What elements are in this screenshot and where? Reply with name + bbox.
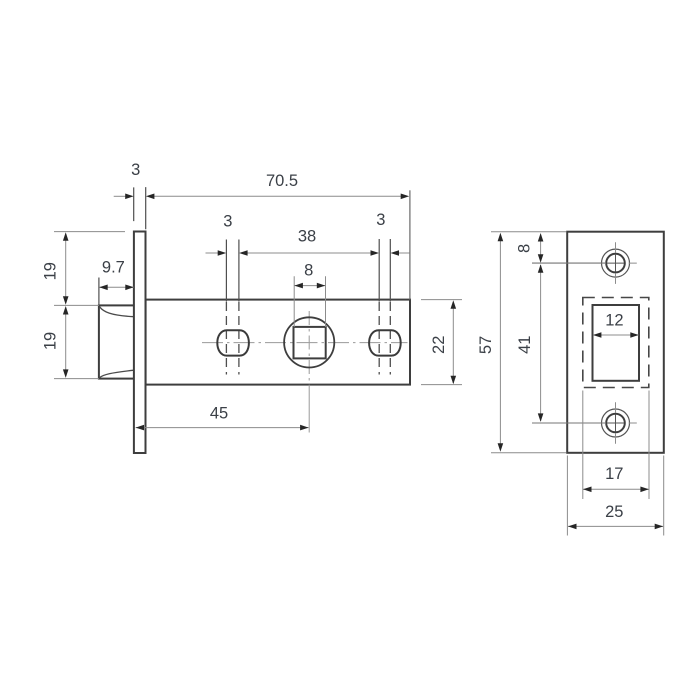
hidden hole lines (left pair) [226, 302, 239, 375]
svg-text:12: 12 [605, 311, 623, 329]
svg-text:9.7: 9.7 [102, 259, 125, 277]
dim 38 [246, 252, 372, 254]
svg-text:3: 3 [223, 213, 232, 231]
svg-text:70.5: 70.5 [266, 172, 298, 190]
faceplate front [567, 232, 664, 453]
spindle circle [284, 317, 334, 367]
dim 17: extension lines [583, 391, 649, 500]
vertical centerline of spindle [308, 311, 310, 384]
top screw hole [602, 242, 637, 284]
svg-text:25: 25 [605, 503, 623, 521]
svg-text:8: 8 [304, 262, 313, 280]
left hole [217, 330, 249, 355]
spindle square [294, 327, 326, 359]
dim 45 [136, 427, 309, 429]
dim 19 top: extension lines [54, 232, 125, 306]
svg-text:19: 19 [41, 332, 59, 350]
svg-text:57: 57 [477, 336, 495, 354]
dim 25: extension lines [567, 456, 663, 536]
dim 3 faceplate : extension lines [134, 187, 146, 229]
svg-text:17: 17 [605, 465, 623, 483]
svg-text:45: 45 [210, 405, 228, 423]
dim 8 top: extension line [532, 262, 606, 264]
horizontal centerline [202, 342, 408, 344]
dim 3 faceplate: tail + arrow [114, 195, 127, 197]
bottom screw hole [602, 402, 637, 444]
dim 22: extension lines [421, 300, 462, 385]
svg-text:22: 22 [430, 336, 448, 354]
latch case body [146, 300, 410, 385]
dim 41: extension line [532, 422, 606, 424]
spindle slot [593, 305, 640, 381]
right hole [369, 330, 401, 355]
svg-text:3: 3 [131, 161, 140, 179]
dim 12 [593, 334, 639, 336]
dim 3 right hole: extension lines [379, 239, 390, 302]
dashed case outline [583, 298, 649, 388]
svg-text:8: 8 [516, 244, 534, 253]
dim 9.7: extension line [98, 278, 100, 306]
svg-text:38: 38 [298, 227, 316, 245]
faceplate (side view) [134, 232, 146, 454]
dim 57: extension lines [491, 232, 566, 453]
dim 19 bottom: extension line [54, 378, 99, 380]
dim 8 spindle: extension lines [294, 276, 325, 327]
dim 3 left hole: extension lines [226, 240, 239, 302]
svg-text:19: 19 [41, 262, 59, 280]
latch bolt [99, 305, 134, 378]
dim 70.5 [409, 190, 411, 299]
svg-text:41: 41 [516, 336, 534, 354]
svg-text:3: 3 [376, 211, 385, 229]
hidden hole lines (right pair) [379, 302, 390, 375]
